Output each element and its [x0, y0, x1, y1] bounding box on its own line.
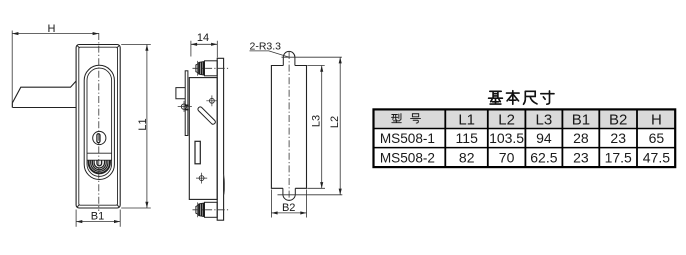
top screw knurled section: [198, 61, 204, 75]
keyway slot inside keyhole: [97, 134, 100, 143]
svg-text:23: 23: [573, 149, 589, 165]
top screw axis centerline: [193, 67, 230, 69]
glyph 号: [411, 114, 421, 123]
handle: [12, 81, 76, 108]
top screw tip: [196, 64, 199, 73]
bottom tab horizontal centerline / L2 extension: [278, 194, 343, 196]
row 1 values: [380, 130, 665, 146]
hole crosshair upper: [206, 95, 217, 106]
row 2 values: [380, 149, 670, 165]
svg-text:17.5: 17.5: [605, 149, 632, 165]
top tab: [283, 51, 295, 65]
glyph 型: [392, 114, 402, 123]
dimension L1 line: [146, 45, 148, 209]
bottom screw body: [205, 202, 218, 217]
glyph 尺: [524, 91, 538, 104]
svg-text:23: 23: [610, 130, 626, 146]
svg-text:65: 65: [649, 130, 665, 146]
lock cylinder nested rings: [88, 160, 110, 173]
svg-text:L2: L2: [329, 116, 341, 128]
svg-text:70: 70: [499, 149, 515, 165]
svg-text:H: H: [48, 23, 56, 35]
svg-text:82: 82: [459, 149, 475, 165]
bottom screw tip centerline tick: [196, 202, 198, 217]
front view vertical centerline: [98, 33, 100, 211]
glyph 基: [489, 91, 503, 104]
spring hook on plate: [224, 175, 225, 195]
latch plate left: [185, 71, 188, 136]
hole crosshair lower: [196, 173, 207, 184]
top tab horizontal centerline / L2 extension: [282, 56, 342, 58]
table title 基本尺寸 (drawn glyphs): [489, 91, 554, 105]
svg-text:L1: L1: [458, 111, 475, 128]
front view body inner bevel outline: [77, 46, 119, 208]
recess slot inner capsule: [87, 68, 112, 176]
table header background: [375, 111, 674, 128]
svg-text:B1: B1: [91, 211, 104, 223]
svg-text:L3: L3: [536, 111, 553, 128]
svg-text:H: H: [651, 111, 662, 128]
dimension H line: [12, 33, 99, 35]
glyph 本: [507, 91, 520, 105]
svg-text:47.5: 47.5: [643, 149, 670, 165]
dimension L2 line: [339, 57, 341, 195]
glyph 寸: [541, 91, 554, 104]
dimension 14 extension lines: [191, 41, 217, 58]
keyhole circle: [93, 131, 106, 144]
header labels: [458, 111, 661, 128]
latch tongue bracket: [176, 88, 185, 99]
table vertical inner lines: [445, 109, 637, 167]
svg-text:14: 14: [197, 32, 209, 44]
recess slot outer capsule: [84, 65, 114, 179]
bottom screw axis centerline: [193, 209, 229, 211]
svg-text:28: 28: [573, 130, 589, 146]
svg-text:103.5: 103.5: [489, 130, 524, 146]
svg-text:62.5: 62.5: [530, 149, 557, 165]
bottom tab: [283, 188, 295, 200]
svg-text:115: 115: [456, 130, 479, 146]
dimension L3 line: [321, 66, 323, 189]
leader line for 2-R3.3: [250, 51, 290, 57]
front view body outer outline: [76, 45, 120, 209]
side view body: [189, 78, 217, 200]
dimension H extension line / handle left edge: [11, 31, 13, 108]
svg-text:MS508-2: MS508-2: [380, 151, 435, 166]
table outer border: [374, 109, 676, 167]
header cell 型号 (drawn glyphs): [392, 114, 421, 123]
svg-text:94: 94: [536, 130, 552, 146]
lock cylinder top lines: [87, 153, 112, 160]
back view vertical centerline: [288, 52, 290, 203]
vertical slot rectangle: [195, 141, 200, 164]
svg-text:L3: L3: [311, 115, 323, 127]
latch nub circle: [181, 104, 186, 109]
svg-text:MS508-1: MS508-1: [380, 131, 435, 146]
dimension B1 extension lines: [76, 210, 120, 227]
top screw tip centerline tick: [196, 61, 198, 76]
dimension 14 line: [191, 43, 217, 45]
latch nub section bars: [185, 105, 189, 109]
svg-text:B1: B1: [572, 111, 590, 128]
mounting panel plate: [217, 58, 223, 220]
bottom screw knurled section: [198, 203, 204, 217]
dimension B2 line: [271, 212, 306, 214]
svg-text:B2: B2: [609, 111, 627, 128]
dimension B1 line: [76, 221, 120, 223]
dimension L1 extension lines: [121, 45, 151, 209]
back view body: [271, 66, 306, 189]
svg-text:L1: L1: [137, 118, 149, 130]
table horizontal inner lines: [374, 129, 676, 148]
bottom screw tip: [196, 205, 199, 214]
diagonal slot: [198, 107, 215, 124]
dimension B2 extension lines: [271, 190, 306, 218]
top screw body: [205, 61, 218, 76]
svg-text:B2: B2: [282, 202, 295, 214]
svg-text:L2: L2: [498, 111, 515, 128]
latch nub crosshair: [178, 101, 192, 112]
dimension L3 extension lines: [307, 66, 325, 189]
